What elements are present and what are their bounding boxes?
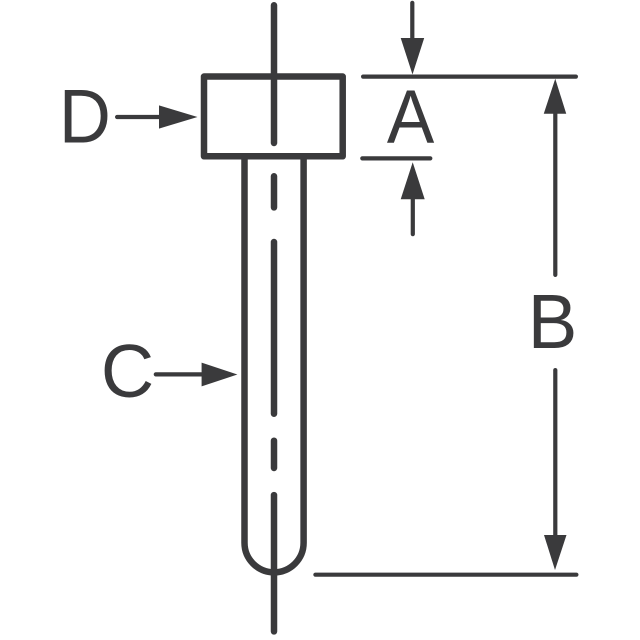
leader D arrowhead (points right) — [159, 105, 198, 128]
pin body outline (part C) with rounded bottom — [245, 158, 304, 572]
centerline bottom segment 5 — [271, 495, 278, 631]
dim A lower arrowhead (points up) — [401, 162, 425, 199]
dim B upper arrowhead (points up) — [544, 79, 567, 114]
dim A upper arrow shaft — [410, 3, 414, 40]
extension line at bottom of head (A lower) — [362, 156, 430, 160]
leader C shaft — [156, 372, 205, 376]
dim A lower arrow shaft — [411, 197, 415, 234]
centerline long segment 3 — [271, 242, 278, 414]
dim B lower arrowhead (points down) — [544, 535, 567, 570]
leader D shaft — [117, 115, 162, 119]
svg-text:D: D — [59, 74, 111, 159]
head rectangle (part D) — [204, 77, 343, 157]
svg-text:B: B — [528, 280, 578, 365]
dim B upper shaft — [553, 110, 557, 275]
centerline short dash 4 — [271, 441, 278, 468]
extension line at top of head (A/B datum) — [363, 74, 576, 78]
svg-text:A: A — [387, 74, 434, 160]
centerline segment 1 (through head) — [271, 5, 278, 143]
svg-text:C: C — [101, 330, 154, 414]
dim A upper arrowhead (points down) — [401, 38, 425, 75]
dim B lower shaft — [553, 370, 557, 537]
extension line at bottom of pin (B lower) — [315, 573, 576, 577]
centerline short dash 2 — [271, 176, 278, 207]
leader C arrowhead (points right) — [202, 363, 238, 387]
